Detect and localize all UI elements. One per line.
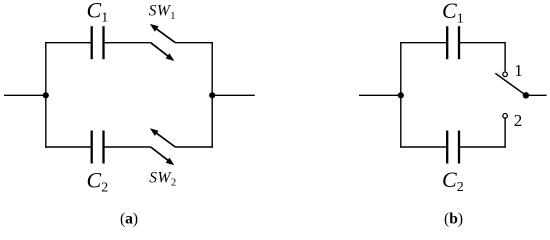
wire: bottom-left segment to C2 (a): [45, 146, 92, 148]
wire: right lead of circuit (a): [212, 94, 255, 96]
wire: contact 2 down to bottom wire (b): [504, 118, 506, 147]
node: left junction dot (a): [43, 92, 49, 98]
capacitor C1: [92, 26, 104, 59]
svg-text:C2: C2: [442, 167, 464, 195]
wire: SW2 to bottom-right corner (a): [175, 146, 213, 148]
node: right junction dot (a): [209, 92, 215, 98]
svg-text:C2: C2: [87, 167, 109, 195]
wire: C2 to SW2 (a): [104, 146, 151, 148]
wire: right lead of circuit (b): [526, 94, 547, 96]
wire: SW1 to top-right corner (a): [175, 42, 213, 44]
switch SW1 (two-arrow switch symbol): [150, 24, 175, 61]
wire: bottom-left segment to C2 (b): [400, 146, 447, 148]
wire: left vertical side (a): [45, 42, 47, 148]
wire: left lead of circuit (a): [4, 94, 46, 96]
svg-text:C1: C1: [87, 0, 109, 26]
svg-text:C1: C1: [442, 0, 464, 26]
wire: top-left segment to C1 (a): [45, 42, 92, 44]
svg-text:(a): (a): [120, 211, 138, 228]
wire: left lead of circuit (b): [359, 94, 401, 96]
capacitor C1 (circuit b): [447, 26, 459, 59]
contact 1 (open circle terminal): [503, 72, 508, 77]
capacitor C2: [92, 131, 104, 164]
wire: C2 to bottom-right corner (b): [459, 146, 506, 148]
wire: top-left segment to C1 (b): [400, 42, 447, 44]
svg-text:2: 2: [514, 111, 523, 130]
wire: drop from corner to contact 1 (b): [504, 42, 506, 71]
switch blade SW (b): [495, 73, 526, 95]
svg-text:SW1: SW1: [149, 3, 176, 22]
capacitor C2 (circuit b): [447, 131, 459, 164]
node: pole junction dot (b): [523, 92, 529, 98]
svg-text:SW2: SW2: [149, 169, 176, 188]
wire: C1 to SW1 (a): [104, 42, 151, 44]
wire: left vertical side (b): [400, 42, 402, 148]
contact 2 (open circle terminal): [503, 114, 508, 119]
switch SW2 (two-arrow switch symbol): [150, 128, 175, 165]
node: left junction dot (b): [398, 92, 404, 98]
svg-text:1: 1: [514, 61, 523, 80]
wire: C1 to top-right corner (b): [459, 42, 506, 44]
wire: right vertical side (a): [211, 42, 213, 148]
svg-text:(b): (b): [444, 211, 463, 228]
